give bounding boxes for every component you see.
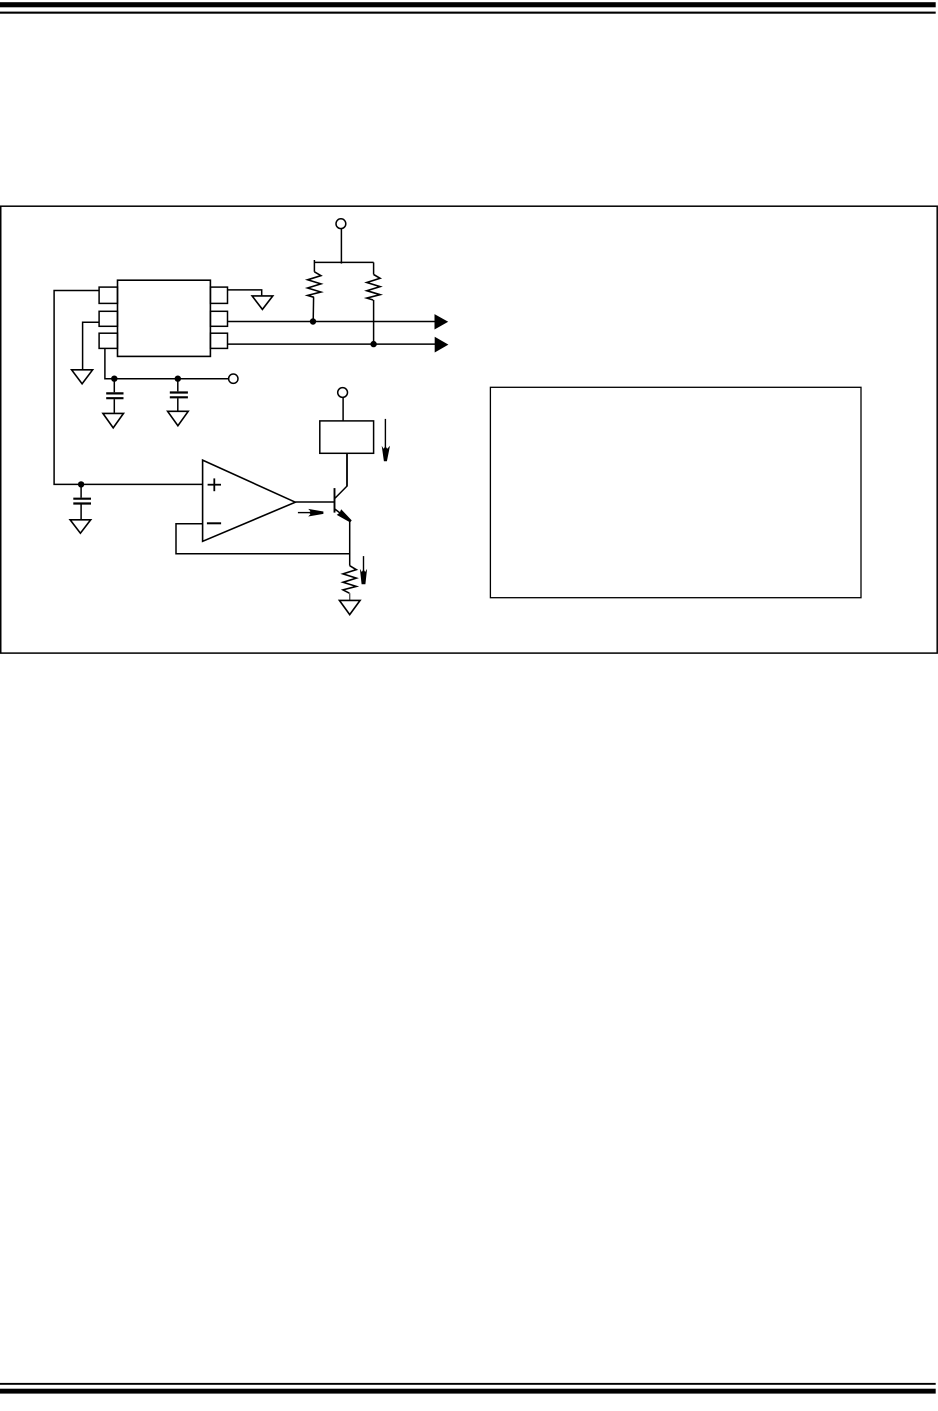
header rules [0, 2, 936, 14]
node dot at +input bypass cap [78, 481, 84, 487]
wire output bus 1 [228, 321, 436, 323]
note box [490, 387, 861, 597]
capacitor C2 [170, 379, 188, 411]
wire output bus 2 [228, 343, 436, 345]
op-amp U2 [203, 460, 296, 541]
ground below C1 [103, 413, 124, 428]
resistor R2 [367, 262, 380, 344]
wire op-amp output to base [295, 501, 334, 503]
ground below C2 [168, 411, 189, 425]
wire emitter down [349, 521, 351, 566]
current source arrow [382, 419, 390, 461]
wire pin1L to op-amp +input [54, 291, 203, 485]
ground at pin1R [252, 296, 273, 310]
ground at pin2L [72, 370, 93, 384]
base current arrow [298, 509, 324, 517]
wire resistor top bar [314, 261, 373, 263]
resistor R3 [343, 566, 356, 601]
supply terminal above current source [338, 388, 348, 398]
transistor Q1 [335, 453, 352, 522]
wire pin2L to ground [83, 322, 100, 369]
node dot C1 [111, 376, 117, 382]
current source I1 [320, 421, 374, 453]
figure frame [1, 206, 937, 653]
wire -input feedback loop [176, 524, 350, 554]
resistor R1 [308, 260, 321, 322]
wire pin3L to decoupling rail [105, 348, 229, 378]
footer rules [0, 1383, 936, 1394]
node dot bus1/R1 [310, 318, 316, 324]
wire current source to collector [346, 453, 348, 486]
arrowhead bus 1 [435, 314, 449, 329]
wire pin1R to ground [228, 290, 262, 296]
emitter current arrow [360, 556, 367, 584]
ground below C3 [70, 520, 91, 533]
node dot bus2/R2 [370, 341, 376, 347]
IC U1 [99, 280, 227, 356]
arrowhead bus 2 [435, 337, 449, 353]
terminal at rail end [229, 374, 238, 383]
capacitor C1 [106, 379, 123, 413]
wire terminal to current source [342, 397, 344, 421]
ground below R3 [339, 600, 360, 614]
node dot C2 [175, 376, 181, 382]
wire supply to resistor bar [340, 229, 342, 264]
pull-up supply terminal [336, 219, 346, 229]
capacitor C3 [73, 484, 91, 519]
